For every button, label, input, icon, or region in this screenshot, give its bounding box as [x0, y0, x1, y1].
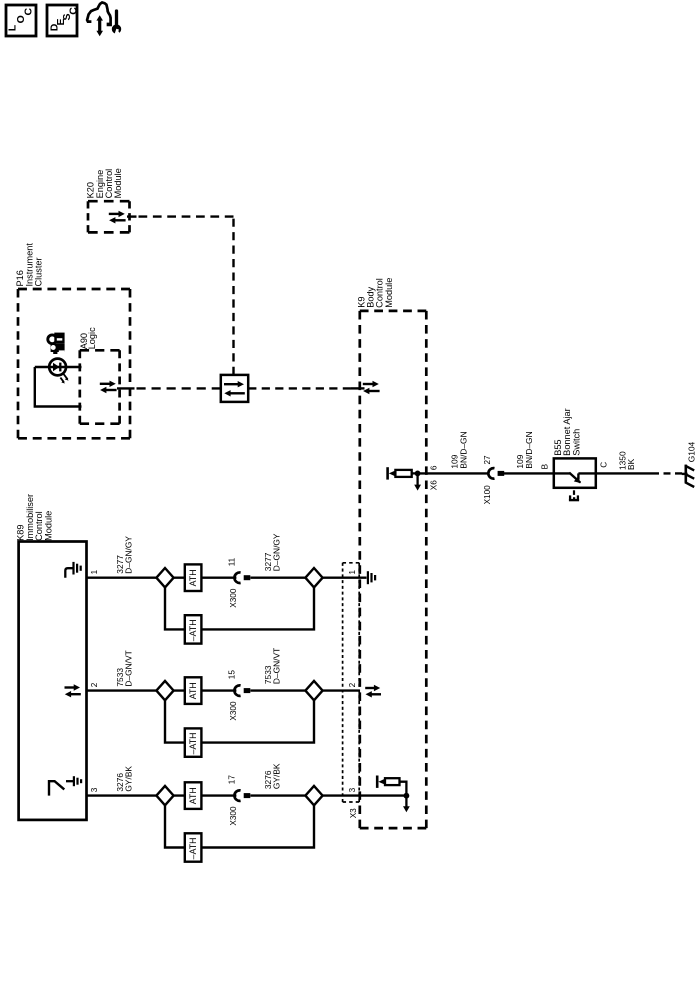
- svg-text:L: L: [6, 24, 18, 31]
- svg-text:15: 15: [227, 670, 236, 680]
- svg-text:D–GN/GY: D–GN/GY: [124, 536, 134, 574]
- svg-text:ATH: ATH: [188, 569, 198, 586]
- svg-text:11: 11: [227, 557, 236, 566]
- svg-text:X300: X300: [229, 588, 238, 608]
- svg-text:–ATH: –ATH: [188, 733, 198, 755]
- svg-text:–ATH: –ATH: [188, 837, 198, 859]
- svg-text:1: 1: [90, 569, 99, 574]
- svg-text:27: 27: [483, 455, 492, 465]
- svg-text:G104: G104: [687, 441, 697, 462]
- svg-text:1: 1: [348, 570, 357, 575]
- svg-text:6: 6: [430, 465, 439, 470]
- svg-text:17: 17: [227, 775, 236, 785]
- svg-text:Cluster: Cluster: [34, 257, 44, 286]
- svg-text:X3: X3: [349, 808, 358, 818]
- svg-text:GY/BK: GY/BK: [124, 766, 134, 792]
- svg-text:ATH: ATH: [188, 787, 198, 804]
- svg-text:BN/D–GN: BN/D–GN: [458, 431, 468, 468]
- svg-text:D–GN/GY: D–GN/GY: [272, 533, 282, 571]
- svg-text:X6: X6: [430, 480, 439, 490]
- svg-text:Module: Module: [384, 278, 394, 308]
- svg-text:2: 2: [348, 682, 357, 687]
- svg-text:Logic: Logic: [87, 327, 97, 349]
- svg-text:Module: Module: [43, 511, 53, 541]
- svg-text:D–GN/VT: D–GN/VT: [124, 650, 134, 686]
- svg-text:B: B: [541, 463, 550, 469]
- svg-text:ATH: ATH: [188, 682, 198, 699]
- svg-text:–ATH: –ATH: [188, 619, 198, 641]
- svg-text:Switch: Switch: [572, 429, 582, 456]
- svg-text:3: 3: [348, 787, 357, 792]
- svg-text:GY/BK: GY/BK: [272, 763, 282, 789]
- svg-text:BN/D–GN: BN/D–GN: [524, 431, 534, 468]
- svg-text:3: 3: [90, 787, 99, 792]
- svg-text:X300: X300: [229, 701, 238, 721]
- svg-text:2: 2: [90, 682, 99, 687]
- svg-text:X100: X100: [483, 485, 492, 505]
- svg-text:Module: Module: [113, 168, 123, 198]
- svg-text:C: C: [600, 462, 609, 468]
- svg-text:D–GN/VT: D–GN/VT: [272, 648, 282, 684]
- svg-text:C: C: [68, 7, 80, 15]
- svg-text:X300: X300: [229, 806, 238, 826]
- svg-text:C: C: [23, 8, 35, 16]
- svg-text:BK: BK: [626, 458, 636, 470]
